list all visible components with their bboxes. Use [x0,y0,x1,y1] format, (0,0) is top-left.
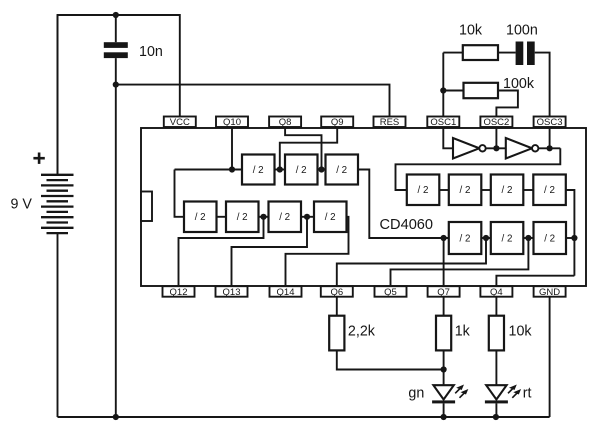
svg-text:10k: 10k [459,23,483,39]
svg-text:/ 2: / 2 [253,165,264,176]
svg-text:100k: 100k [503,76,535,92]
svg-text:OSC1: OSC1 [430,117,456,128]
divider D1 /2 [407,175,440,206]
node A1-A2 junction [277,166,283,172]
divider A2 /2 [285,155,318,185]
node OSC2 tap [493,145,499,151]
svg-text:/ 2: / 2 [544,185,555,196]
wire D4 output down right side [566,190,575,276]
LED D1 gn [432,385,455,417]
node B2-B3 junction [260,214,266,220]
svg-text:/ 2: / 2 [502,185,513,196]
divider B1 /2 [184,202,217,233]
wire A1-A2 [275,169,286,171]
battery plus sign [33,153,44,164]
svg-text:Q12: Q12 [170,287,188,298]
pin Q9 [321,117,353,129]
svg-text:RES: RES [380,117,400,128]
svg-text:1k: 1k [455,324,471,340]
svg-text:Q6: Q6 [330,287,343,298]
pin OSC2 [480,117,512,129]
op-amp U1 IC body CD4060 [141,128,586,286]
divider A1 /2 [242,155,275,185]
wire oscillator feedback to row D input [396,148,561,190]
LED D2 light arrows [508,385,521,398]
pin RES [374,117,406,129]
battery BT1 minus lead [57,233,59,417]
wire Q8 internal [285,128,321,170]
pin OSC3 [534,117,566,129]
wire bottom ground rail [58,416,550,418]
resistor R3 2,2k [329,316,344,351]
svg-text:/ 2: / 2 [460,233,471,244]
svg-text:/ 2: / 2 [418,185,429,196]
node A2-A3 junction [318,166,324,172]
resistor R2 100k [443,83,518,117]
wire OSC2 internal [495,128,497,148]
svg-text:OSC2: OSC2 [483,117,509,128]
svg-text:/ 2: / 2 [502,233,513,244]
pin Q10 [216,117,248,129]
svg-text:Q8: Q8 [279,117,292,128]
wire OSC1 internal to inverter [443,128,453,148]
svg-text:/ 2: / 2 [336,165,347,176]
inverter N2 [506,138,539,159]
svg-text:gn: gn [408,386,424,402]
svg-text:GND: GND [539,287,560,298]
wire Q12 rung [179,217,264,287]
wire A3 output to row E input [358,170,449,239]
divider A3 /2 [326,155,359,185]
divider E1 /2 [449,222,482,254]
svg-text:rt: rt [523,386,532,402]
wire C1 bottom down the left bus [115,58,117,417]
wire Q6 to R3 [336,297,338,316]
divider D3 /2 [491,175,524,206]
svg-text:/ 2: / 2 [544,233,555,244]
svg-text:/ 2: / 2 [460,185,471,196]
svg-text:Q9: Q9 [331,117,344,128]
pin Q13 [216,286,248,298]
wire OSC1 external [442,53,444,117]
wire Q6 rung [337,238,486,286]
node bottom rail left [113,414,119,420]
wire N2 output [538,147,560,149]
wire row A to row B link [175,170,185,217]
capacitor C2 100n [516,42,550,117]
divider B3 /2 [269,202,302,233]
wire D1-D2 [439,189,449,191]
pin Q5 [375,286,407,298]
wire E2-E3 [523,237,533,239]
node Q7 tap [441,235,447,241]
pin Q12 [163,286,195,298]
wire top supply rail [58,15,180,175]
node R3/R4 junction [441,366,447,372]
node E1-E2 junction [483,235,489,241]
resistor R4 1k [436,316,451,351]
LED D2 rt [485,385,508,417]
svg-text:/ 2: / 2 [296,165,307,176]
wire OSC3 internal [549,128,551,148]
pin Q4 [480,286,512,298]
pin Q14 [270,286,302,298]
pin Q6 [321,286,353,298]
wire B1-B2 [217,216,227,218]
wire RES rail [116,85,390,117]
wire N1 output to N2 [486,147,506,149]
divider D2 /2 [449,175,482,206]
wire Q13 rung [232,217,308,287]
svg-text:Q7: Q7 [437,287,450,298]
wire Q4 rung [496,276,574,287]
node top rail / C1 junction [113,12,119,18]
wire Q14 rung [286,217,349,287]
wire B2-B3 [259,216,269,218]
node LED gn to rail [441,414,447,420]
wire Q7 to R4 [443,297,445,316]
LED D1 light arrows [455,385,468,398]
node OSC3 tap [547,145,553,151]
node E2-E3 junction [525,235,531,241]
wire D3-D4 [523,189,533,191]
svg-text:Q14: Q14 [277,287,295,298]
svg-text:OSC3: OSC3 [537,117,563,128]
svg-text:10k: 10k [509,324,533,340]
node D4-E3 junction [571,235,577,241]
pin Q8 [269,117,301,129]
wire Q5 rung [391,238,529,286]
wire D2-D3 [481,189,491,191]
wire B3-B4 [301,216,314,218]
wire R4 to LED gn [443,350,445,385]
wire Q10 internal [231,128,233,170]
wire Q9 internal [280,128,337,170]
svg-text:Q4: Q4 [490,287,503,298]
inverter N1 [453,138,486,159]
wire R5 to LED rt [495,350,497,385]
resistor R5 10k [489,316,504,351]
wire R3 to LED branch [337,350,444,369]
pin GND [534,286,566,298]
wire A2-A3 [318,169,326,171]
IC left edge notch [141,192,152,222]
wire E3 output [566,237,574,239]
wire Q4 to R5 [495,297,497,316]
pin Q7 [428,286,460,298]
divider E3 /2 [534,222,567,254]
svg-text:/ 2: / 2 [237,212,248,223]
divider D4 /2 [533,175,566,206]
wire Q7 internal drop [443,238,445,286]
node C1 / RES rail junction [113,82,119,88]
capacitor C1 10n [104,15,128,58]
resistor R1 10k [443,45,515,60]
battery BT1 9V plus lead [57,15,59,175]
wire row A input [175,169,243,171]
node R1/R2 junction [440,87,446,93]
svg-text:Q5: Q5 [384,287,397,298]
battery BT1 9V plates [41,175,74,233]
divider B2 /2 [226,202,259,233]
wire E1-E2 [481,237,491,239]
svg-text:Q10: Q10 [223,117,241,128]
svg-text:/ 2: / 2 [325,212,336,223]
node LED rt to rail [493,414,499,420]
svg-text:/ 2: / 2 [195,212,206,223]
svg-text:CD4060: CD4060 [380,217,434,233]
svg-text:/ 2: / 2 [279,212,290,223]
divider B4 /2 [314,202,347,233]
pin OSC1 [427,117,459,129]
svg-text:Q13: Q13 [223,287,241,298]
svg-text:2,2k: 2,2k [348,324,376,340]
svg-text:10n: 10n [139,44,163,60]
svg-text:9 V: 9 V [11,197,33,213]
wire GND external [549,297,551,417]
svg-text:100n: 100n [506,23,538,39]
node Q10 tap [229,166,235,172]
node B3-B4 junction [304,214,310,220]
divider E2 /2 [491,222,524,254]
pin VCC [164,117,196,129]
svg-text:VCC: VCC [170,117,190,128]
